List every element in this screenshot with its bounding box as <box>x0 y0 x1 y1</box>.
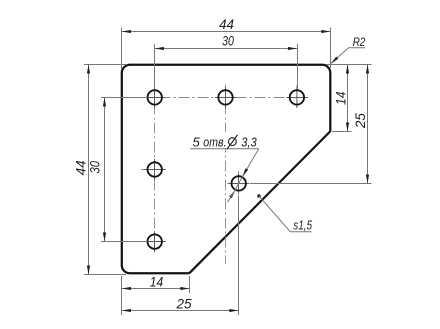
extension line chamfer start right <box>332 131 352 133</box>
svg-text:14: 14 <box>333 92 348 106</box>
dimension 44 left <box>73 65 90 275</box>
svg-text:отв.: отв. <box>203 134 226 149</box>
centerline hole H5 horizontal tick <box>141 241 169 243</box>
extension line top-left corner vertical <box>121 28 123 70</box>
hole H1 <box>148 90 162 104</box>
svg-text:30: 30 <box>87 161 102 174</box>
svg-text:5: 5 <box>193 134 201 149</box>
extension line top edge left <box>84 64 126 66</box>
dimension 30 left <box>87 98 106 242</box>
svg-text:25: 25 <box>175 297 192 312</box>
plate outline <box>122 65 331 274</box>
extension line hole H1 up <box>154 44 156 89</box>
centerline hole H6 cross <box>228 171 252 196</box>
dimension 25 right <box>353 65 369 184</box>
extension line hole H6 down <box>238 196 240 315</box>
leader R2 <box>331 35 366 64</box>
extension line bottom edge left <box>84 274 126 276</box>
svg-text:s1,5: s1,5 <box>293 218 312 233</box>
svg-text:44: 44 <box>219 17 234 32</box>
extension line top edge right <box>326 64 372 66</box>
dimension 14 bottom <box>122 275 189 291</box>
extension line chamfer bottom down <box>189 276 191 293</box>
leader 5 holes callout <box>190 149 259 203</box>
dimension 14 right <box>333 65 349 132</box>
hole H5 <box>148 234 162 248</box>
centerline middle vertical <box>225 85 227 265</box>
svg-text:R2: R2 <box>353 35 366 49</box>
hole H4 <box>148 162 162 176</box>
extension line top-right corner vertical <box>330 28 332 69</box>
hole H3 <box>290 90 304 104</box>
extension line hole H5 left <box>101 241 148 243</box>
centerline hole H3 vertical tick <box>296 85 298 110</box>
extension line hole H6 right <box>250 183 372 185</box>
svg-text:25: 25 <box>353 113 368 130</box>
hole center ticks <box>144 87 307 252</box>
centerline row 1 horizontal <box>141 97 312 99</box>
svg-text:14: 14 <box>150 275 164 290</box>
extension line hole H1 left <box>101 97 148 99</box>
extension line hole H3 up <box>297 44 299 89</box>
svg-text:30: 30 <box>222 34 234 49</box>
dimension 30 top <box>155 34 297 51</box>
label 5 otv dia 3,3 <box>189 132 259 149</box>
dimension 25 bottom <box>122 297 238 313</box>
svg-text:3,3: 3,3 <box>241 134 257 149</box>
hole H2 <box>218 90 232 104</box>
leader s1,5 <box>257 194 312 232</box>
dimension 44 top <box>122 17 330 33</box>
hole H6 <box>232 176 246 190</box>
extension line bottom-left corner down <box>121 276 123 315</box>
svg-text:44: 44 <box>73 160 88 175</box>
centerline left column vertical <box>154 85 156 256</box>
centerline hole H4 horizontal tick <box>141 169 169 171</box>
